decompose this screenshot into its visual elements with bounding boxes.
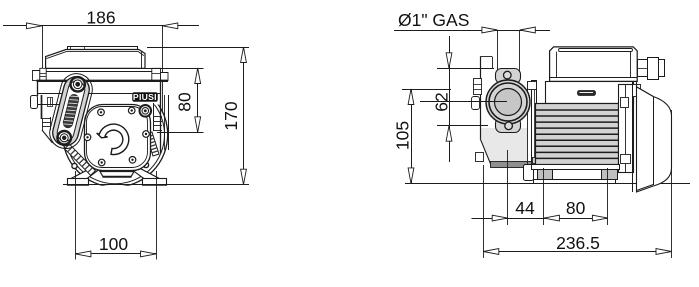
flange bottom lobe bbox=[496, 118, 521, 133]
flange bottom bolt hole bbox=[505, 122, 513, 130]
ext line 607 bbox=[607, 168, 609, 225]
dimension 186 right arrow bbox=[162, 23, 178, 29]
top plate tick 2 bbox=[84, 46, 86, 49]
right foot base bbox=[143, 179, 167, 186]
left ladder side bbox=[50, 117, 52, 130]
svg-text:170: 170 bbox=[221, 101, 241, 130]
dimension 80 bottom arrow bbox=[195, 117, 201, 133]
end bell inner line bbox=[625, 84, 627, 172]
pump body heavy shoulder line bbox=[37, 80, 169, 82]
casing drain tab bbox=[476, 153, 484, 162]
extension line right of 186 bbox=[162, 26, 164, 140]
motor rear end bell bbox=[619, 85, 634, 173]
left ladder rung 1 bbox=[42, 118, 51, 120]
left ladder rung 2 bbox=[42, 122, 51, 124]
dim 44 right arrow bbox=[544, 215, 560, 221]
flange bottom bolt bbox=[57, 131, 71, 145]
pump upper body face bbox=[37, 80, 161, 104]
left ladder rung 3 bbox=[42, 126, 51, 128]
top plate tick 1 bbox=[70, 46, 72, 49]
motor base plate bbox=[534, 180, 616, 184]
svg-text:80: 80 bbox=[175, 92, 195, 112]
rim screw lower-right bbox=[143, 162, 148, 167]
port bore bbox=[495, 89, 522, 116]
dimension 100 left arrow bbox=[75, 251, 91, 257]
left outer tab bbox=[33, 71, 40, 81]
fan cowl bottom slant bbox=[637, 185, 654, 191]
extension line left of 186 bbox=[42, 26, 44, 80]
casing top right edge bbox=[492, 57, 494, 68]
left foot base bbox=[68, 179, 89, 186]
front cover plate bbox=[85, 105, 151, 171]
motor upper band bbox=[546, 82, 634, 104]
motor box front bbox=[46, 50, 145, 69]
casing tab mid bbox=[472, 97, 480, 110]
rotation direction arrow bbox=[97, 124, 129, 154]
GAS ext line right bbox=[519, 30, 521, 72]
cover screw 2 bbox=[128, 107, 135, 114]
flange top bolt hole bbox=[504, 71, 512, 79]
dim 105 top arrow bbox=[408, 89, 414, 105]
clamp strip right bbox=[146, 132, 159, 156]
ext line bottom of 80 bbox=[157, 132, 204, 134]
ext line right 236 bbox=[671, 110, 673, 258]
fan cowl bbox=[637, 82, 672, 192]
end bell lug top bbox=[621, 98, 629, 108]
terminal box bbox=[550, 47, 638, 82]
GAS ext line left bbox=[497, 30, 499, 70]
dim 105 bottom arrow bbox=[408, 168, 414, 184]
svg-text:80: 80 bbox=[566, 198, 586, 218]
end bell lug bottom bbox=[621, 155, 631, 164]
dimension 170 top arrow bbox=[241, 47, 247, 63]
cable gland part 3 bbox=[659, 60, 665, 77]
GAS left arrow bbox=[482, 27, 498, 33]
dim 62 bottom arrow bbox=[446, 126, 452, 142]
ext line 483 bbox=[483, 165, 485, 258]
ext line 105 top bbox=[402, 89, 451, 91]
motor box lip line bbox=[46, 52, 143, 59]
left flange notch bbox=[40, 68, 46, 80]
vent slot bbox=[578, 91, 596, 96]
ext line left of 100 bbox=[75, 171, 77, 260]
casing tab rung bbox=[474, 84, 482, 86]
dimension 80 line bbox=[197, 68, 199, 132]
fan cowl top slant bbox=[637, 87, 654, 97]
dimension 80 top arrow bbox=[195, 68, 201, 84]
svg-text:100: 100 bbox=[99, 234, 128, 254]
circle overflow mask bbox=[58, 186, 250, 196]
terminal box lid seam bbox=[559, 49, 633, 52]
cover screw 3 bbox=[84, 134, 91, 141]
dim 236.5 left arrow bbox=[483, 249, 499, 255]
bottom drain boss bbox=[100, 172, 134, 177]
terminal box wall left bbox=[556, 52, 558, 78]
svg-text:105: 105 bbox=[393, 121, 413, 150]
motor box right inner line bbox=[141, 52, 143, 69]
dimension 186 line bbox=[3, 25, 199, 27]
dim 236.5 line bbox=[483, 251, 671, 253]
rim screw lower-left bbox=[72, 163, 77, 168]
casing bucket outline bbox=[480, 139, 531, 165]
pump body lower-left line bbox=[37, 104, 62, 106]
flange top bolt bbox=[71, 77, 85, 91]
cover screw 5 bbox=[98, 159, 105, 166]
dimension 186 left arrow bbox=[27, 23, 43, 29]
motor box bottom flange line bbox=[43, 68, 161, 70]
dimension 170 line bbox=[243, 47, 245, 185]
svg-text:186: 186 bbox=[86, 7, 115, 27]
motor foot front bbox=[538, 170, 553, 180]
fan cowl inner edge bbox=[632, 82, 634, 192]
ext line top of 170 bbox=[147, 47, 249, 49]
outlet oval flange bbox=[46, 70, 95, 152]
pump body outer circle bbox=[63, 82, 168, 187]
motor front band line bbox=[534, 80, 536, 165]
right ear inner edge bbox=[164, 95, 166, 150]
ext line top of 80 bbox=[147, 68, 204, 70]
PIUSI label bbox=[133, 93, 158, 102]
left edge step bbox=[42, 119, 44, 131]
cable gland part 2 bbox=[648, 58, 659, 80]
fan cowl face line bbox=[653, 97, 655, 186]
dim 44-80 line bbox=[472, 218, 608, 220]
pump body left edge bbox=[37, 81, 39, 96]
tie bolt head bottom bbox=[533, 158, 537, 164]
cover screw 4 bbox=[143, 131, 150, 138]
right ladder edge bbox=[153, 103, 155, 131]
right notch step bbox=[152, 73, 161, 75]
svg-text:62: 62 bbox=[431, 92, 451, 111]
pump body right edge bbox=[160, 81, 162, 153]
dim 62 top arrow bbox=[446, 53, 452, 69]
dimension 100 line bbox=[75, 253, 156, 255]
casing shade bar bbox=[491, 162, 532, 168]
motor foot rear bbox=[602, 170, 618, 180]
tiny molded logo bar bbox=[50, 98, 52, 106]
flange top lobe bbox=[496, 69, 521, 84]
dimension 100 right arrow bbox=[141, 251, 157, 257]
casing left edge bbox=[480, 57, 482, 139]
right ear outer edge bbox=[168, 95, 170, 150]
tie bolt head top bbox=[528, 82, 537, 90]
motor cooling fins bbox=[536, 104, 619, 165]
svg-text:236.5: 236.5 bbox=[556, 233, 600, 253]
tiny molded logo bbox=[48, 98, 53, 107]
baseline under feet bbox=[63, 184, 249, 186]
left notch step 2 bbox=[40, 76, 46, 78]
left notch step bbox=[40, 73, 46, 75]
cable gland part 1 bbox=[638, 60, 648, 77]
flange disc bbox=[486, 80, 530, 124]
dim 80 right arrow bbox=[592, 215, 608, 221]
ext line right of 100 bbox=[156, 171, 158, 260]
svg-text:PIUSI: PIUSI bbox=[133, 92, 157, 102]
left edge curve bbox=[42, 130, 53, 143]
left foot bracket bbox=[70, 167, 103, 180]
svg-text:Ø1" GAS: Ø1" GAS bbox=[398, 10, 469, 30]
left tab bbox=[31, 96, 38, 109]
clamp strip lower-left bbox=[65, 144, 96, 175]
cable gland mid line bbox=[637, 68, 647, 70]
pump body inner rim circle bbox=[66, 85, 165, 184]
side view ground line bbox=[405, 183, 690, 185]
svg-text:44: 44 bbox=[515, 198, 535, 218]
terminal box wall right bbox=[630, 52, 632, 78]
gray clamp band bottom rim bbox=[88, 92, 143, 106]
casing tab upper bbox=[474, 79, 482, 95]
casing top line bbox=[480, 56, 492, 58]
dimension 170 bottom arrow bbox=[241, 169, 247, 185]
housing bolt boss bbox=[633, 85, 641, 97]
ext line 62 bottom bbox=[437, 125, 488, 127]
ext line 507 bbox=[507, 150, 509, 225]
dim line GAS bbox=[394, 30, 550, 32]
motor flange lower line bbox=[46, 71, 157, 73]
left edge thick bbox=[41, 95, 43, 119]
cover screw 1 bbox=[98, 109, 105, 116]
right ear top bbox=[161, 73, 169, 81]
casing bucket bbox=[480, 128, 527, 164]
motor front end band bbox=[532, 81, 537, 165]
bypass cap bbox=[140, 105, 152, 117]
dim 62 line bbox=[449, 36, 451, 162]
dim 105 line bbox=[411, 89, 413, 183]
cover screw 6 bbox=[129, 157, 136, 164]
motor top cover plate bbox=[68, 47, 138, 50]
ext line port center bbox=[420, 101, 507, 103]
front cover inner line bbox=[87, 107, 148, 168]
port outer circle bbox=[489, 83, 527, 121]
dim 44 left arrow bbox=[492, 215, 508, 221]
GAS right arrow bbox=[520, 27, 536, 33]
casing joint line bbox=[527, 82, 529, 164]
terminal box bottom line bbox=[550, 77, 638, 79]
dim 236.5 right arrow bbox=[656, 249, 672, 255]
ext line 62 top bbox=[437, 68, 494, 70]
pump body mid line bbox=[37, 93, 161, 95]
pump support bracket bbox=[524, 165, 534, 181]
right ladder rungs bbox=[154, 116, 163, 118]
right flange notch bbox=[152, 68, 161, 80]
ext line 543 bbox=[543, 168, 545, 225]
motor base bar bbox=[532, 165, 620, 170]
right foot bracket bbox=[127, 167, 160, 180]
